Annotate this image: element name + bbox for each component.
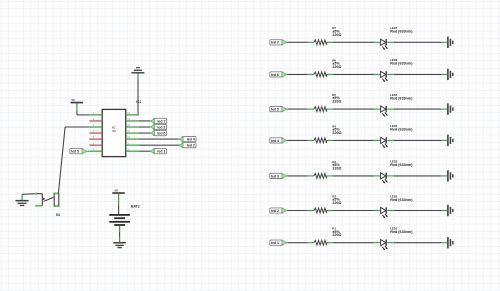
svg-text:Red (633nm): Red (633nm): [390, 198, 413, 202]
svg-text:Red (633nm): Red (633nm): [390, 96, 413, 100]
svg-text:led 1: led 1: [271, 241, 279, 245]
svg-text:IC1: IC1: [136, 100, 141, 104]
svg-text:Red (633nm): Red (633nm): [390, 163, 413, 167]
svg-text:led 2: led 2: [187, 144, 195, 148]
svg-text:led 6: led 6: [157, 131, 165, 135]
svg-text:Red (633nm): Red (633nm): [390, 62, 413, 66]
svg-text:220Ω: 220Ω: [332, 201, 341, 205]
svg-text:led 6: led 6: [271, 73, 279, 77]
svg-text:BAT2: BAT2: [131, 204, 140, 208]
svg-text:Red (633nm): Red (633nm): [390, 230, 413, 234]
svg-text:220Ω: 220Ω: [332, 65, 341, 69]
svg-text:Red (633nm): Red (633nm): [390, 128, 413, 132]
svg-text:led 1: led 1: [157, 150, 165, 154]
svg-text:14: 14: [112, 129, 116, 133]
svg-text:220Ω: 220Ω: [332, 131, 341, 135]
svg-text:220Ω: 220Ω: [332, 100, 341, 104]
svg-text:5V: 5V: [115, 188, 119, 192]
svg-text:led 7: led 7: [157, 119, 165, 123]
svg-text:220Ω: 220Ω: [332, 166, 341, 170]
svg-text:led 5: led 5: [271, 107, 279, 111]
svg-text:led 7: led 7: [271, 41, 279, 45]
svg-text:5V: 5V: [72, 98, 76, 102]
svg-text:Red (633nm): Red (633nm): [390, 30, 413, 34]
svg-text:led 3: led 3: [271, 174, 279, 178]
svg-text:led 4: led 4: [271, 139, 279, 143]
svg-text:led 4: led 4: [187, 137, 195, 141]
svg-text:220Ω: 220Ω: [332, 233, 341, 237]
svg-text:S3: S3: [56, 213, 60, 217]
svg-text:220Ω: 220Ω: [332, 33, 341, 37]
svg-text:led 5: led 5: [71, 150, 79, 154]
svg-text:led 2: led 2: [271, 209, 279, 213]
svg-text:led 3: led 3: [157, 125, 165, 129]
